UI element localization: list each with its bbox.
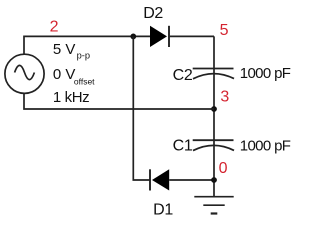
wire: node 0 (D1 anode to ground junction): [169, 179, 214, 181]
svg-text:C1: C1: [173, 138, 193, 155]
junction: node 0: [211, 177, 217, 183]
junction: node 2 / D1 branch: [130, 34, 136, 40]
svg-text:C2: C2: [173, 67, 193, 84]
diode D1: [150, 169, 169, 190]
junction: node 3: [211, 106, 217, 112]
svg-text:1 kHz: 1 kHz: [53, 89, 89, 106]
wire: D1 branch (node 2 junction down and right to D1 cathode): [133, 36, 149, 180]
svg-text:D1: D1: [153, 202, 173, 219]
wire: node 2 top (source top lead to D2 anode): [24, 36, 151, 54]
svg-text:D2: D2: [143, 5, 163, 22]
svg-text:offset: offset: [74, 77, 95, 87]
svg-text:1000 pF: 1000 pF: [240, 137, 291, 154]
capacitor C2: [193, 69, 234, 79]
wire: node 2 bottom (source bottom lead to node 3): [24, 93, 214, 109]
capacitor C1: [193, 140, 234, 150]
svg-text:0: 0: [219, 160, 228, 177]
wire: node 5 (D2 cathode to right rail corner): [170, 35, 214, 37]
svg-text:5: 5: [220, 22, 229, 39]
diode D2: [150, 26, 169, 47]
svg-text:3: 3: [220, 89, 229, 106]
svg-text:5 V: 5 V: [53, 41, 76, 58]
AC source V1: [5, 54, 44, 93]
svg-text:2: 2: [50, 19, 59, 36]
svg-text:0 V: 0 V: [53, 66, 76, 83]
wire: right vertical rail (node 5 through C2, node 3, C1, node 0 to ground): [213, 36, 215, 196]
ground: [194, 197, 233, 214]
svg-text:1000 pF: 1000 pF: [240, 65, 291, 82]
svg-text:p-p: p-p: [77, 50, 90, 60]
